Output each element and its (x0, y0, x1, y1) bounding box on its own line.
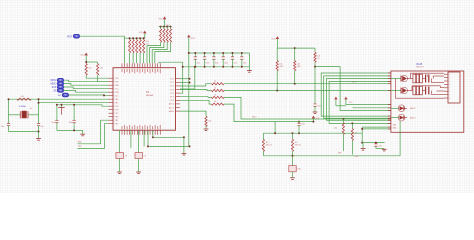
svg-text:10k: 10k (334, 127, 337, 129)
wire pack1 top bus (159, 25, 171, 27)
resistor R3 (85, 64, 91, 76)
wire INT to IC (69, 94, 109, 96)
supply VCC (main rail) (187, 35, 196, 147)
resistor R12 pull-up (136, 37, 138, 63)
capacitor C15 bypass (240, 52, 246, 68)
svg-text:22p: 22p (1, 126, 4, 128)
wire relay aux (352, 107, 391, 109)
capacitor C5 (bottom) (116, 130, 127, 170)
supply VCC (pack1) (159, 16, 167, 26)
resistor R32 series (212, 94, 225, 98)
wire cap row right drop (248, 53, 250, 69)
svg-text:100n: 100n (317, 105, 321, 107)
capacitor C10 bypass (194, 52, 200, 68)
svg-text:1: 1 (449, 74, 450, 76)
wire relay loop 1 (321, 73, 391, 116)
ground GND (C6) (136, 170, 141, 173)
svg-text:VCC: VCC (139, 32, 144, 34)
net label MOSI (flag) (51, 78, 64, 82)
label RN2 values (146, 41, 149, 46)
wire net TXD (78, 124, 109, 149)
wire caps to ground (9, 131, 40, 133)
wire net RXD (78, 120, 109, 144)
svg-text:0805 1%: 0805 1% (266, 145, 273, 147)
svg-text:100n: 100n (378, 145, 382, 147)
net label RST (flag) (67, 34, 79, 38)
wire pullup bus RN2 (125, 37, 145, 39)
wire IC to R31 (180, 90, 212, 91)
capacitor C22 (313, 67, 321, 112)
svg-text:BAS32: BAS32 (410, 116, 415, 119)
svg-text:100n: 100n (196, 63, 200, 65)
supply VCC (tap B) (344, 97, 347, 101)
diode D1 (module) (391, 105, 415, 112)
svg-text:SS: SS (53, 90, 57, 92)
crystal Q1 (9, 106, 39, 118)
svg-text:BAS32: BAS32 (410, 107, 415, 110)
wire U jumper (336, 101, 391, 106)
svg-text:TXD: TXD (78, 146, 82, 148)
wire K2 line2 (224, 104, 275, 133)
wire cap row VCC bus (188, 52, 250, 54)
svg-text:VCC: VCC (115, 89, 120, 91)
svg-text:0805 1%: 0805 1% (295, 145, 302, 147)
svg-text:2: 2 (449, 77, 450, 79)
resistor R14 pull-up (143, 37, 145, 63)
svg-text:10k: 10k (208, 120, 211, 122)
resistor R50 divider (262, 133, 272, 151)
resistor R13 pull-up (139, 37, 141, 63)
svg-text:10k: 10k (355, 133, 358, 135)
svg-text:GND: GND (115, 85, 120, 87)
svg-text:PC0: PC0 (170, 79, 174, 81)
svg-text:C9: C9 (144, 155, 146, 157)
supply VCC (left pair) (80, 53, 88, 57)
wire cap GND bus (57, 129, 83, 131)
wire VCC to pin 2 (180, 82, 191, 84)
ground GND (D3) (290, 176, 295, 179)
svg-text:G6K-2F-Y: G6K-2F-Y (416, 67, 425, 69)
label net stubs (338, 153, 359, 159)
resistor R23 pull-up (155, 26, 172, 64)
resistor R61 pulldown (351, 122, 357, 154)
capacitor C1 (1, 124, 10, 132)
svg-text:PD3: PD3 (115, 78, 119, 80)
wire GND run under IC (152, 130, 185, 138)
module K1 name (416, 63, 425, 69)
svg-text:PB1: PB1 (115, 120, 119, 122)
svg-text:1k: 1k (214, 94, 216, 96)
svg-text:PB7: PB7 (115, 103, 119, 105)
svg-text:1k: 1k (214, 88, 216, 90)
capacitor C6 (bottom) (135, 130, 146, 170)
ground AGND (tap) (58, 104, 64, 115)
svg-text:100n: 100n (215, 63, 219, 65)
wire C21 gnd (376, 148, 384, 150)
wire R4 to IC (98, 75, 109, 82)
svg-text:MOSI: MOSI (51, 80, 57, 82)
ground GND (relay bus) (361, 143, 366, 151)
supply VCC (pack2) (139, 31, 147, 39)
wire IC to R32 (180, 96, 212, 99)
net label SS (flag) (53, 89, 63, 93)
svg-text:10k: 10k (88, 68, 91, 70)
svg-text:REL2: REL2 (252, 117, 257, 119)
svg-text:6: 6 (449, 91, 450, 93)
svg-text:PC4: PC4 (170, 93, 174, 95)
wire cap row GND bus (183, 66, 250, 68)
svg-text:4: 4 (449, 84, 450, 86)
svg-text:VCC: VCC (159, 18, 164, 20)
resistor R6 (AREF) (205, 116, 211, 126)
ground GND (cap row) (247, 69, 252, 72)
wire R42 to relay (314, 62, 391, 110)
resistor R31 series (212, 88, 225, 92)
capacitor C12 bypass (212, 52, 218, 68)
wire K1 line2 (224, 90, 391, 92)
wire K1 line1 (224, 82, 391, 85)
svg-text:MISO: MISO (51, 84, 57, 86)
resistor R40 pull-up (276, 48, 283, 90)
svg-text:RXD: RXD (78, 141, 83, 143)
resistor R60 pulldown (334, 118, 345, 151)
svg-text:0805: 0805 (279, 66, 283, 68)
svg-text:PC5: PC5 (170, 97, 174, 99)
ground GND (AVCC caps) (80, 130, 85, 135)
resistor R10 pull-up (129, 37, 131, 63)
svg-text:VCC: VCC (191, 38, 196, 40)
svg-text:VCC: VCC (316, 118, 321, 120)
wire cap C20 top (275, 121, 313, 123)
capacitor C11 bypass (203, 52, 209, 68)
svg-text:7: 7 (449, 94, 450, 96)
capacitor C21 (374, 142, 382, 149)
diode D3 (indicator) (289, 156, 302, 177)
svg-text:12.0MHz: 12.0MHz (19, 106, 27, 108)
wire AGND vertical (159, 62, 184, 93)
svg-text:100n: 100n (243, 63, 247, 65)
svg-text:GND: GND (115, 92, 120, 94)
wire net ADJ (263, 132, 362, 134)
svg-text:100n: 100n (69, 122, 73, 124)
svg-text:PB6: PB6 (115, 99, 119, 101)
wire RST to IC top (80, 36, 125, 63)
svg-text:VCC: VCC (115, 96, 120, 98)
IC1 name/value (146, 92, 154, 97)
relay channel 1 (391, 74, 430, 83)
wire MOSI to IC (64, 80, 109, 82)
capacitor C14 bypass (231, 52, 237, 68)
supply VCC (C20) (312, 116, 321, 123)
wire AREF (180, 111, 206, 116)
svg-text:AREF: AREF (169, 110, 175, 113)
wire IC to R30 (180, 84, 212, 86)
wire divider bottom bus (263, 133, 400, 157)
wire XTAL1 net (9, 98, 109, 100)
svg-text:VCC: VCC (271, 38, 276, 40)
svg-text:10k: 10k (100, 68, 103, 70)
wire crystal left leg (8, 98, 10, 123)
resistor R11 pull-up (132, 37, 134, 63)
IC1 bottom pins (122, 125, 161, 135)
connector X1 (444, 72, 460, 103)
relay channel 2 (391, 86, 430, 95)
wire SS to IC (64, 90, 109, 92)
capacitor C20 (297, 121, 305, 134)
svg-text:22p: 22p (41, 126, 44, 128)
IC1 left pins (109, 78, 120, 126)
svg-text:PB2: PB2 (115, 124, 119, 126)
wire stub pins bottom (131, 130, 144, 148)
svg-text:1M: 1M (21, 96, 24, 98)
svg-text:PD7: PD7 (115, 113, 119, 115)
wire module bottom feed (399, 121, 401, 132)
module K1 internal wires (395, 73, 444, 98)
svg-text:RST: RST (67, 35, 72, 38)
svg-text:PB0: PB0 (115, 117, 119, 119)
svg-text:PC6: PC6 (170, 100, 174, 102)
svg-text:PC2: PC2 (170, 86, 174, 88)
wire R3 to IC (86, 75, 108, 78)
IC1 top pins (122, 63, 161, 73)
ground GND (crystal) (36, 132, 41, 141)
resistor R20 pull-up (147, 26, 162, 64)
svg-text:PC3: PC3 (170, 89, 174, 91)
svg-text:1k: 1k (214, 101, 216, 103)
supply VCC (tap A) (334, 97, 337, 106)
svg-text:100n: 100n (224, 63, 228, 65)
svg-text:3: 3 (449, 81, 450, 83)
svg-text:REL1: REL1 (352, 82, 357, 84)
IC1 body (113, 68, 176, 131)
resistor R22 pull-up (152, 26, 168, 64)
resistor R21 pull-up (150, 26, 165, 64)
resistor R41 pull-up (294, 48, 301, 84)
svg-text:PD5: PD5 (115, 106, 119, 108)
ground GND (C22) (313, 112, 318, 114)
resistor R51 divider (291, 133, 301, 151)
svg-text:0805: 0805 (297, 66, 301, 68)
capacitor C2 (37, 124, 44, 132)
svg-text:100n: 100n (233, 63, 237, 65)
wire pullup bus (277, 39, 315, 49)
svg-text:ADC7: ADC7 (169, 106, 174, 109)
ground GND (IC bottom) (182, 137, 187, 155)
capacitor C3 (51, 104, 58, 131)
resistor R33 series (212, 101, 225, 105)
svg-text:ADC6: ADC6 (169, 103, 174, 106)
svg-text:1k: 1k (214, 81, 216, 83)
svg-text:Q1: Q1 (30, 108, 32, 110)
wire AVCC bus (57, 105, 109, 106)
resistor R5 1M (17, 96, 31, 100)
resistor R30 series (212, 81, 225, 85)
svg-text:MEGA8: MEGA8 (146, 94, 154, 97)
wire relay feed double (361, 127, 391, 144)
wire VCC to pin (180, 78, 191, 80)
module K1 left pins (388, 73, 391, 129)
wire relay loop 3 (326, 79, 391, 121)
svg-text:100n: 100n (51, 122, 55, 124)
wire crystal right leg (38, 98, 40, 123)
ground GND (C5) (117, 170, 122, 173)
wire relay gnd bus (362, 142, 385, 144)
diode D2 (module) (391, 114, 415, 121)
ground GND (C21) (382, 149, 387, 151)
module K1 bottom labels (393, 124, 398, 129)
supply VCC (pullups) (271, 36, 279, 40)
svg-text:4k7: 4k7 (266, 142, 269, 144)
net label MISO (flag) (51, 82, 64, 86)
module K1 outline (391, 71, 464, 132)
svg-text:100n: 100n (301, 123, 305, 125)
svg-text:8: 8 (449, 98, 450, 100)
svg-text:VCC: VCC (80, 54, 85, 56)
svg-text:C8: C8 (125, 155, 127, 157)
resistor R42 pull-up (314, 48, 320, 62)
wire MISO to IC (64, 84, 109, 86)
svg-text:PD4: PD4 (115, 82, 119, 84)
wire VCC run under IC (147, 130, 191, 147)
svg-text:RL05: RL05 (417, 63, 423, 66)
svg-text:100n: 100n (205, 63, 209, 65)
svg-text:4k7: 4k7 (295, 142, 298, 144)
wire K2 line1 (224, 97, 391, 119)
wire SCK to IC (64, 87, 109, 89)
svg-text:5: 5 (449, 88, 450, 90)
wire VCC to R3/R4 (85, 55, 97, 63)
svg-text:PD6: PD6 (115, 110, 119, 112)
svg-text:SCK: SCK (52, 87, 57, 89)
net label INT (flag) (58, 93, 69, 97)
ground GND (AREF) (204, 127, 209, 131)
wire relay loop 2 (324, 76, 391, 118)
resistor R4 (97, 64, 103, 76)
net label SCK (flag) (52, 85, 64, 89)
wire XTAL2 net (39, 99, 109, 103)
IC1 right pins (169, 79, 180, 113)
capacitor C13 bypass (222, 52, 228, 68)
capacitor C4 (69, 104, 76, 131)
wire relay loop 4 (329, 82, 391, 124)
svg-text:PC1: PC1 (170, 82, 174, 84)
wire AVCC vertical (180, 66, 196, 89)
wire IC to R33 (180, 100, 212, 104)
